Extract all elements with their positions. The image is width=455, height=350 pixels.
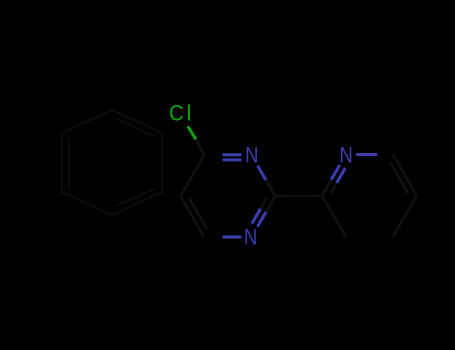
- wire inner double line bottom-right edge: [117, 189, 155, 207]
- bond C5'-C4': [393, 196, 417, 237]
- bond C6=C5 main: [181, 196, 205, 237]
- bond C2=N1 main nitrogen half: [257, 212, 266, 227]
- bond N1'-C6' nitrogen half: [356, 153, 377, 156]
- bond C4-Cl carbon half: [196, 140, 204, 156]
- benzene watermark hexagon (very dark): [62, 110, 162, 215]
- svg-text:C: C: [169, 100, 184, 125]
- bond C3'-C2': [322, 196, 346, 237]
- bond C5'=C6' inner: [391, 163, 409, 194]
- bond N1-C6 nitrogen half: [223, 236, 242, 239]
- wire inner double line top-right edge: [117, 119, 155, 137]
- bond C4-Cl green half: [188, 126, 196, 139]
- bond N3-C2 nitrogen half: [258, 166, 267, 181]
- bond C4'-C3': [346, 235, 393, 237]
- bond C2=N1 inner nitrogen half: [252, 209, 261, 224]
- bond C2=N1 main carbon half: [266, 196, 275, 212]
- bond N3-C2 carbon half: [266, 180, 275, 196]
- bond C2'=N1' main carbon half: [322, 180, 331, 196]
- bond C5-C4: [181, 155, 205, 196]
- bond C2'=N1' inner carbon half: [331, 183, 337, 194]
- pyrimidine ring bonds: [181, 126, 322, 237]
- wire hexagon outline: [62, 110, 162, 215]
- bond C4=N3 main carbon half: [204, 154, 222, 156]
- bond C3'=C4' inner: [353, 230, 386, 232]
- wire inner double line left edge: [68, 137, 70, 188]
- bond C2'=N1' inner nitrogen half: [337, 168, 346, 183]
- svg-text:N: N: [340, 143, 353, 168]
- bond N1-C6 carbon half: [204, 236, 222, 238]
- bond C2'=N1' main nitrogen half: [331, 165, 340, 180]
- svg-text:l: l: [186, 100, 191, 125]
- svg-text:N: N: [245, 143, 258, 168]
- bond C4=N3 inner nitrogen half: [223, 158, 242, 161]
- bond N1'-C6' carbon half: [377, 153, 393, 155]
- bond C2-C2' inter-ring: [275, 194, 322, 197]
- bond C6=C5 inner: [189, 198, 207, 229]
- bond C4=N3 main nitrogen half: [223, 153, 242, 156]
- bond C2=N1 inner carbon half: [261, 198, 267, 209]
- bond C6'-C5': [393, 155, 417, 196]
- pyridine ring bonds: [322, 155, 417, 237]
- svg-text:N: N: [244, 225, 257, 250]
- bond C4=N3 inner carbon half: [213, 159, 223, 161]
